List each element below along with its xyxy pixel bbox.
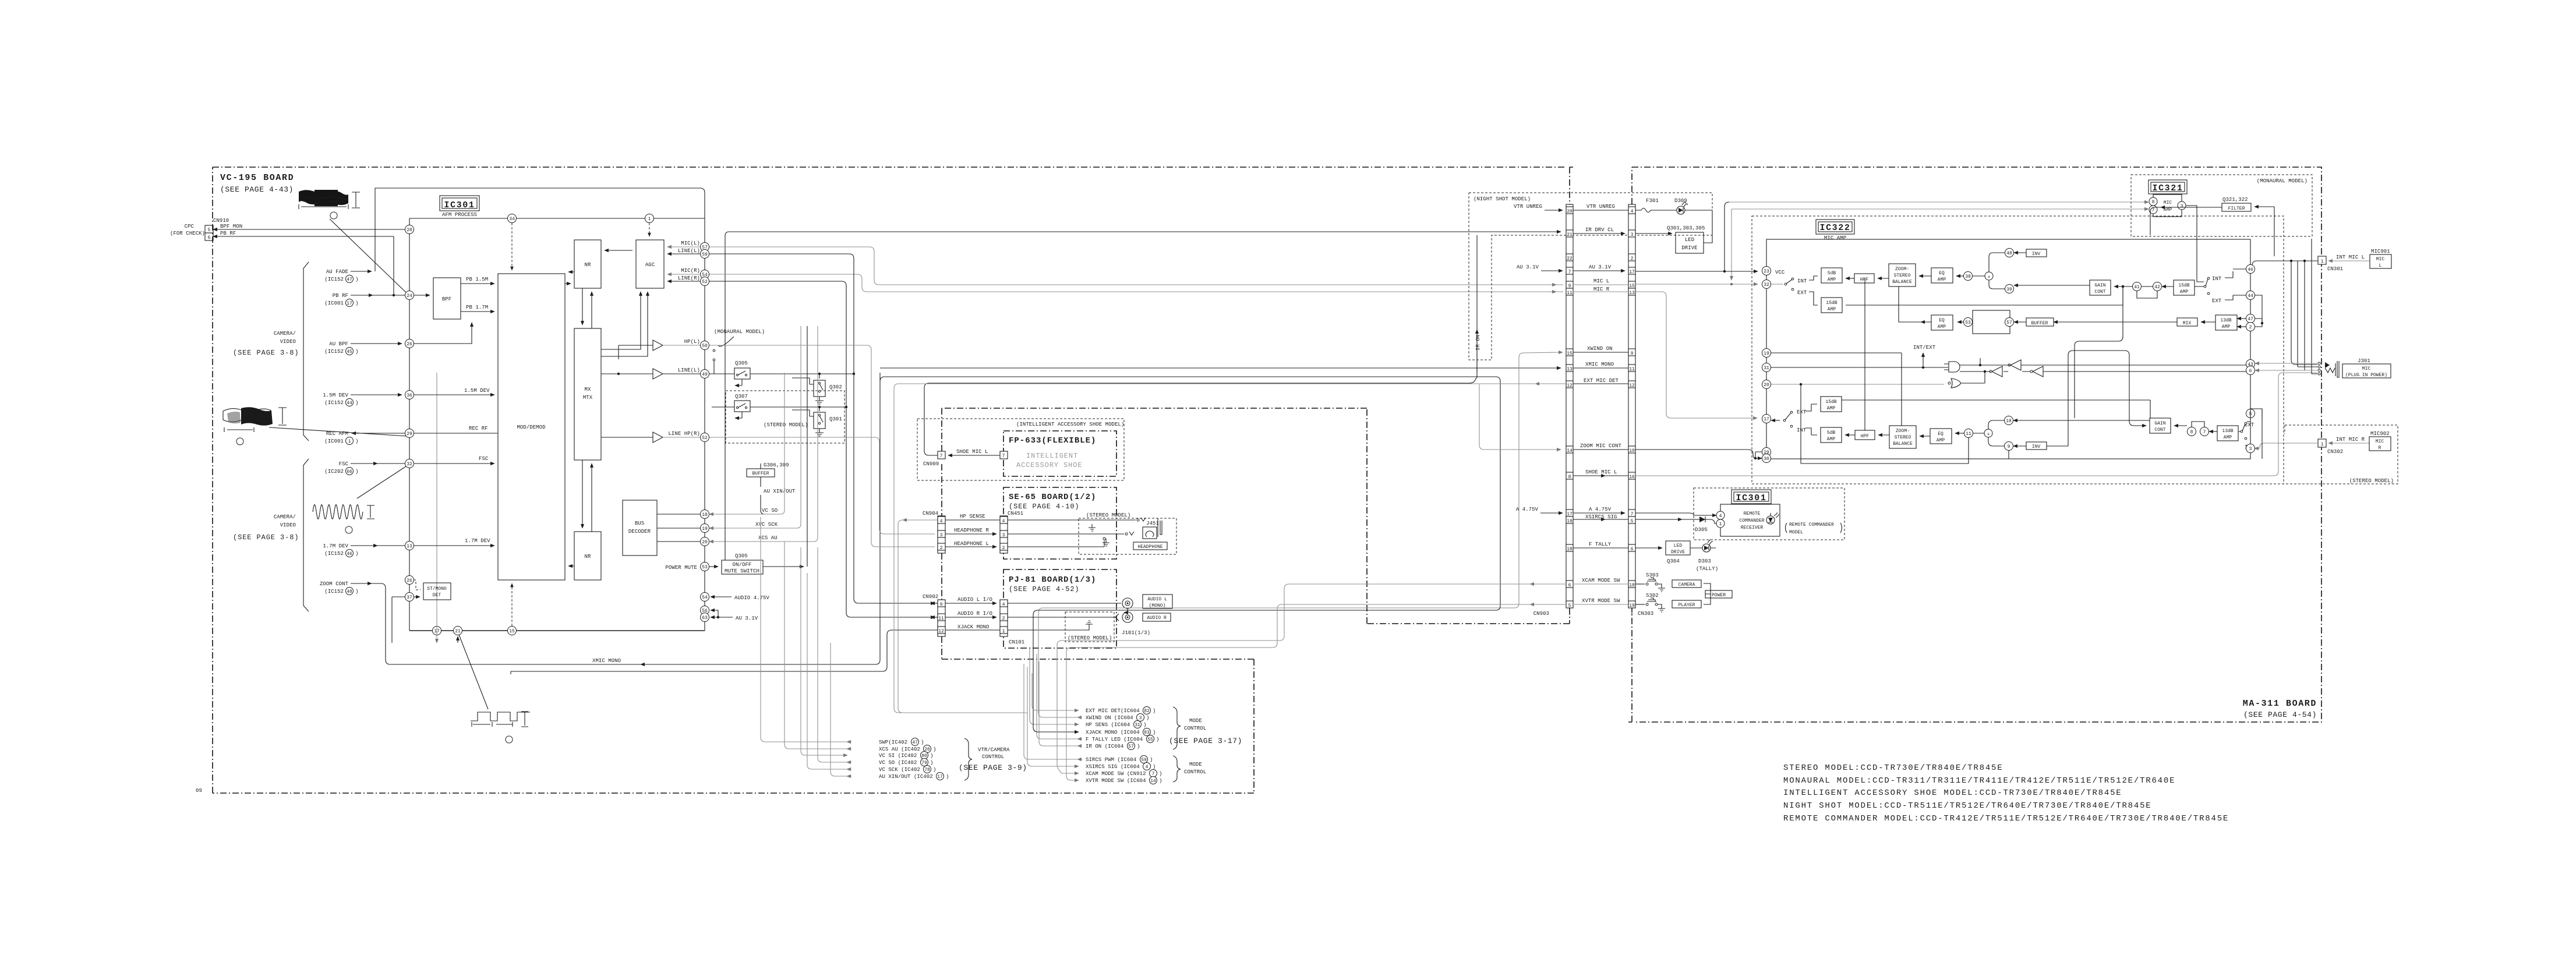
BPF box bbox=[433, 278, 461, 319]
svg-text:CAMERA/: CAMERA/ bbox=[274, 331, 296, 337]
svg-text:LED: LED bbox=[1674, 543, 1683, 549]
FP pin 7 bbox=[1000, 451, 1008, 459]
pin 29 bbox=[405, 429, 414, 438]
HPF top bbox=[1854, 274, 1874, 283]
svg-text:26: 26 bbox=[407, 578, 412, 583]
wire HP(L) down to HEADPHONE L bbox=[709, 345, 935, 547]
svg-text:17: 17 bbox=[1629, 270, 1635, 275]
svg-text:): ) bbox=[355, 469, 358, 475]
svg-text:20: 20 bbox=[702, 540, 708, 545]
svg-text:12: 12 bbox=[1567, 383, 1573, 388]
svg-text:1: 1 bbox=[2321, 442, 2324, 447]
svg-text:CAMERA/: CAMERA/ bbox=[274, 514, 296, 520]
svg-text:INT MIC R: INT MIC R bbox=[2336, 437, 2365, 443]
via 21 bbox=[454, 627, 462, 635]
svg-text:INTELLIGENT ACCESSORY SHOE MOD: INTELLIGENT ACCESSORY SHOE MODEL:CCD-TR7… bbox=[1783, 788, 2122, 798]
15dB AMP right bbox=[2174, 280, 2195, 295]
svg-text:Q321,322: Q321,322 bbox=[2222, 197, 2248, 203]
svg-text:(MONAURAL MODEL): (MONAURAL MODEL) bbox=[2257, 178, 2308, 184]
svg-text:7: 7 bbox=[1002, 454, 1005, 459]
svg-text:ZOOM-: ZOOM- bbox=[1896, 429, 1910, 434]
monaural model dashed box bbox=[2131, 175, 2312, 236]
stereo model dashed box bbox=[726, 391, 844, 443]
svg-text:1: 1 bbox=[1719, 522, 1722, 527]
square pointer circle bbox=[506, 736, 513, 743]
pin 18 VC SO bbox=[701, 510, 709, 519]
svg-text:6: 6 bbox=[1568, 583, 1571, 588]
5dB AMP top bbox=[1821, 268, 1842, 283]
CN101 column bbox=[1000, 600, 1008, 636]
ST/MONO DET box bbox=[423, 583, 451, 600]
svg-text:REMOTE COMMANDER MODEL:CCD-TR4: REMOTE COMMANDER MODEL:CCD-TR412E/TR511E… bbox=[1783, 814, 2229, 823]
svg-text:26: 26 bbox=[407, 342, 412, 347]
svg-text:7: 7 bbox=[2152, 208, 2155, 213]
via 17 bbox=[433, 627, 441, 635]
pin 20 XCS AU bbox=[701, 537, 709, 546]
svg-text:SE-65 BOARD(1/2): SE-65 BOARD(1/2) bbox=[1009, 493, 1096, 502]
svg-text:F301: F301 bbox=[1646, 198, 1659, 204]
svg-text:MODE: MODE bbox=[1189, 718, 1202, 724]
svg-text:32: 32 bbox=[1764, 282, 1769, 288]
svg-text:BUFFER: BUFFER bbox=[752, 471, 769, 476]
wire LINE(L) down to AUDIO L I/O bbox=[709, 254, 935, 603]
node 47 2 bbox=[2246, 314, 2255, 323]
svg-text:AU 3.1V: AU 3.1V bbox=[1589, 264, 1612, 270]
pin 53 POWER MUTE bbox=[701, 562, 709, 571]
svg-text:): ) bbox=[1153, 730, 1156, 735]
svg-text:59: 59 bbox=[1141, 758, 1147, 763]
svg-text:(SEE PAGE 3-8): (SEE PAGE 3-8) bbox=[233, 533, 299, 542]
BUFFER mid bbox=[2026, 318, 2054, 326]
wires MX to AGC bbox=[601, 292, 641, 349]
13dB AMP mid bbox=[2215, 315, 2237, 330]
svg-text:32: 32 bbox=[407, 462, 412, 467]
svg-text:7: 7 bbox=[1152, 772, 1155, 777]
svg-text:(SEE PAGE 3-17): (SEE PAGE 3-17) bbox=[1169, 737, 1242, 745]
svg-text:52: 52 bbox=[702, 436, 708, 441]
svg-text:7: 7 bbox=[2203, 430, 2206, 435]
svg-text:(SEE PAGE 4-43): (SEE PAGE 4-43) bbox=[220, 185, 294, 194]
svg-text:CONTROL: CONTROL bbox=[982, 754, 1004, 760]
svg-text:EXT MIC DET(IC604: EXT MIC DET(IC604 bbox=[1086, 708, 1140, 714]
svg-text:BALANCE: BALANCE bbox=[1892, 280, 1912, 285]
POWER label bbox=[1705, 590, 1732, 598]
pin row MIC L bbox=[1566, 281, 1573, 288]
svg-text:XCS AU: XCS AU bbox=[758, 535, 778, 541]
MA-311 board border bbox=[1628, 167, 2321, 722]
svg-text:PJ-81 BOARD(1/3): PJ-81 BOARD(1/3) bbox=[1009, 575, 1096, 585]
XJACK MONO jack ground bbox=[1008, 621, 1093, 630]
svg-text:6: 6 bbox=[208, 235, 211, 240]
svg-text:(IC152: (IC152 bbox=[324, 400, 344, 406]
svg-text:47: 47 bbox=[912, 740, 918, 745]
svg-text:15: 15 bbox=[509, 629, 515, 634]
LED DRIVE Q304 bbox=[1666, 541, 1690, 555]
lower channel bottom rail bbox=[1801, 384, 1969, 464]
svg-text:BPF MON: BPF MON bbox=[220, 224, 242, 229]
intelligent accessory shoe dotted box bbox=[917, 419, 1124, 480]
svg-text:F TALLY LED (IC604: F TALLY LED (IC604 bbox=[1086, 737, 1143, 742]
svg-text:2: 2 bbox=[940, 546, 943, 551]
svg-text:): ) bbox=[1159, 778, 1162, 784]
night shot model dashed box bbox=[1469, 193, 1712, 360]
headphone jack stereo dashed box bbox=[1079, 518, 1176, 554]
svg-text:36: 36 bbox=[407, 393, 412, 398]
svg-text:(IC001: (IC001 bbox=[324, 438, 344, 444]
pointer line to pin 24 bbox=[330, 219, 407, 293]
pin 26 bbox=[405, 339, 414, 348]
pin row MIC R bbox=[1566, 288, 1573, 295]
svg-text:83: 83 bbox=[1144, 730, 1150, 735]
svg-text:12: 12 bbox=[938, 629, 944, 634]
svg-text:MIC: MIC bbox=[2376, 439, 2384, 444]
svg-text:8: 8 bbox=[1568, 475, 1571, 480]
svg-text:3: 3 bbox=[1002, 533, 1005, 538]
IC301 top bus bbox=[409, 218, 705, 219]
pin 52 LINE(R) bbox=[701, 277, 709, 286]
svg-text:15dB: 15dB bbox=[1825, 399, 1836, 405]
svg-text:MIC AMP: MIC AMP bbox=[1824, 235, 1846, 241]
logic AND gate bbox=[1949, 362, 1960, 372]
wire AU BPF bbox=[351, 343, 402, 344]
svg-text:D303: D303 bbox=[1698, 558, 1711, 564]
PLAYER label bbox=[1672, 600, 1701, 608]
svg-text:): ) bbox=[1150, 757, 1153, 763]
svg-text:9: 9 bbox=[1631, 351, 1634, 356]
svg-text:XVC SCK: XVC SCK bbox=[755, 522, 778, 528]
pin 28 bbox=[405, 225, 414, 234]
svg-text:7: 7 bbox=[1568, 270, 1571, 275]
svg-text:AMP: AMP bbox=[2224, 435, 2232, 440]
svg-text:SHOE MIC L: SHOE MIC L bbox=[956, 449, 988, 455]
svg-text:DRIVE: DRIVE bbox=[1681, 245, 1697, 251]
svg-text:(STEREO MODEL): (STEREO MODEL) bbox=[2349, 478, 2394, 484]
MOD/DEMOD box bbox=[498, 274, 565, 580]
svg-text:5: 5 bbox=[208, 228, 211, 233]
svg-text:VIDEO: VIDEO bbox=[280, 522, 296, 528]
svg-text:AMP: AMP bbox=[2164, 207, 2172, 213]
wire filter to mic amp bbox=[2186, 206, 2204, 282]
svg-text:EXT: EXT bbox=[1797, 290, 1807, 296]
svg-text:STEREO: STEREO bbox=[1895, 435, 1911, 440]
LED in receiver bbox=[1766, 516, 1775, 524]
IC301 remote label bbox=[1732, 490, 1771, 504]
svg-text:AMP: AMP bbox=[1828, 307, 1836, 312]
pin row XCAM MODE SW bbox=[1566, 581, 1573, 588]
pin 19 XVC SCK bbox=[701, 524, 709, 533]
wire MIC L into mic amp pin 8 bbox=[1635, 284, 1758, 285]
HEADPHONE label bbox=[1133, 542, 1167, 550]
svg-text:REMOTE COMMANDER: REMOTE COMMANDER bbox=[1789, 522, 1834, 528]
ground symbol upper bbox=[1089, 524, 1096, 531]
svg-text:INT/EXT: INT/EXT bbox=[1913, 345, 1936, 351]
pin 13 bbox=[405, 542, 414, 550]
svg-text:(NIGHT SHOT MODEL): (NIGHT SHOT MODEL) bbox=[1473, 196, 1531, 202]
svg-text:ZOOM-: ZOOM- bbox=[1895, 267, 1909, 272]
svg-text:A 4.75V: A 4.75V bbox=[1516, 507, 1539, 512]
svg-text:AUDIO L: AUDIO L bbox=[1147, 597, 1167, 602]
svg-text:MIC901: MIC901 bbox=[2371, 249, 2390, 254]
svg-text:EXT MIC DET: EXT MIC DET bbox=[1584, 378, 1619, 384]
svg-text:20: 20 bbox=[1567, 209, 1573, 214]
adder top bbox=[1985, 272, 1993, 280]
svg-text:6: 6 bbox=[2249, 369, 2252, 374]
svg-text:13dB: 13dB bbox=[2222, 429, 2233, 434]
wire HP SENSE channel bbox=[903, 519, 938, 521]
svg-text:37: 37 bbox=[407, 595, 412, 600]
svg-text:NR: NR bbox=[585, 262, 591, 268]
svg-text:SWP(IC402: SWP(IC402 bbox=[879, 740, 907, 745]
svg-text:AU 3.1V: AU 3.1V bbox=[736, 615, 758, 621]
svg-text:XCAM MODE SW: XCAM MODE SW bbox=[1582, 578, 1620, 583]
svg-text:15: 15 bbox=[1567, 351, 1573, 356]
svg-text:MOD/DEMOD: MOD/DEMOD bbox=[517, 424, 545, 430]
svg-text:13: 13 bbox=[1567, 367, 1573, 372]
svg-text:AMP: AMP bbox=[1827, 406, 1836, 411]
pin 23 VCC bbox=[1762, 267, 1771, 275]
svg-text:MTX: MTX bbox=[583, 395, 593, 401]
node 38 bbox=[1964, 272, 1973, 281]
svg-text:): ) bbox=[921, 740, 924, 745]
svg-text:NR: NR bbox=[585, 554, 591, 560]
svg-text:48: 48 bbox=[2006, 251, 2012, 256]
svg-text:AU 3.1V: AU 3.1V bbox=[1517, 264, 1539, 270]
pin row SHOE MIC L bbox=[1566, 472, 1573, 479]
long wire MIC(R) to CN903 MIC R bbox=[709, 274, 1563, 292]
svg-text:VTR UNREG: VTR UNREG bbox=[1586, 204, 1615, 210]
svg-text:REMOTE: REMOTE bbox=[1744, 511, 1761, 516]
MX MTX box bbox=[574, 328, 601, 460]
remote commander model note bbox=[1786, 523, 1842, 533]
pin 37 bbox=[405, 593, 414, 602]
svg-text:IR ON (IC604: IR ON (IC604 bbox=[1086, 744, 1123, 749]
SE-65 board box bbox=[1003, 487, 1116, 559]
pin row EXT MIC DET bbox=[1566, 381, 1573, 388]
svg-text:DECODER: DECODER bbox=[628, 529, 651, 535]
svg-text:8: 8 bbox=[2152, 200, 2155, 205]
EQ AMP lower bbox=[1930, 429, 1952, 444]
long wire MIC(L) to CN903 MIC L bbox=[709, 247, 1563, 285]
noise pointer circle mid bbox=[236, 438, 243, 445]
node 41 42 bbox=[2133, 282, 2142, 291]
svg-text:VCC: VCC bbox=[1775, 270, 1785, 275]
wire A4.75V to receiver bbox=[1635, 513, 1716, 515]
svg-text:VTR UNREG: VTR UNREG bbox=[1514, 204, 1542, 210]
pin row XWIND ON bbox=[1566, 349, 1573, 356]
svg-text:13: 13 bbox=[407, 544, 412, 549]
amp LINE HP(R) bbox=[653, 432, 663, 443]
svg-text:Q305: Q305 bbox=[735, 553, 748, 559]
svg-text:XWIND ON (IC604: XWIND ON (IC604 bbox=[1086, 715, 1133, 721]
svg-text:): ) bbox=[930, 753, 933, 759]
noise waveform picture mid bbox=[223, 407, 287, 432]
svg-text:66: 66 bbox=[347, 469, 352, 475]
svg-text:HP SENS (IC604: HP SENS (IC604 bbox=[1086, 722, 1130, 728]
feedback rails bbox=[2068, 351, 2146, 426]
ZOOM-STEREO BALANCE lower bbox=[1889, 426, 1916, 448]
svg-text:): ) bbox=[355, 300, 358, 306]
svg-text:16: 16 bbox=[1629, 475, 1635, 480]
svg-text:48: 48 bbox=[347, 589, 352, 595]
svg-text:EQ: EQ bbox=[1939, 318, 1945, 323]
node 8 7 lower bbox=[2188, 427, 2196, 436]
svg-text:Q305: Q305 bbox=[735, 360, 748, 366]
wire NR lower to MOD bbox=[568, 565, 574, 567]
svg-text:DET: DET bbox=[433, 593, 441, 598]
svg-text:VC SO (IC402: VC SO (IC402 bbox=[879, 760, 917, 766]
pin 54 MIC(R) bbox=[701, 270, 709, 279]
svg-text:XMIC MONO: XMIC MONO bbox=[1585, 362, 1614, 367]
svg-text:1.7M DEV: 1.7M DEV bbox=[323, 543, 348, 549]
svg-text:XWIND ON: XWIND ON bbox=[1587, 346, 1613, 352]
svg-text:9: 9 bbox=[940, 602, 943, 607]
svg-text:AUDIO R: AUDIO R bbox=[1147, 615, 1167, 621]
square wave picture bbox=[471, 712, 530, 727]
svg-text:(IC152: (IC152 bbox=[324, 349, 344, 355]
svg-text:5: 5 bbox=[1631, 519, 1634, 524]
node 9 / INV lower bbox=[2005, 442, 2013, 451]
svg-text:AMP: AMP bbox=[1938, 324, 1946, 330]
wires MIC(L)/LINE(L) into AGC bbox=[667, 246, 700, 247]
svg-text:BUFFER: BUFFER bbox=[2031, 321, 2048, 326]
pin 59 LINE(L) bbox=[701, 250, 709, 259]
wires MIC(R)/LINE(R) into AGC bbox=[667, 274, 700, 275]
svg-text:30: 30 bbox=[1764, 457, 1769, 462]
pin row F TALLY bbox=[1566, 544, 1573, 551]
svg-text:HPF: HPF bbox=[1861, 434, 1870, 439]
svg-text:LED: LED bbox=[1685, 237, 1694, 243]
svg-text:BALANCE: BALANCE bbox=[1893, 441, 1913, 447]
svg-text:MUTE SWITCH: MUTE SWITCH bbox=[725, 568, 759, 574]
svg-text:38: 38 bbox=[1965, 274, 1971, 280]
svg-text:CPC: CPC bbox=[185, 224, 195, 229]
svg-text:IR DRV CL: IR DRV CL bbox=[1585, 227, 1614, 233]
svg-text:MODEL: MODEL bbox=[1789, 530, 1803, 535]
svg-text:1: 1 bbox=[648, 217, 651, 222]
svg-text:VC SO: VC SO bbox=[762, 508, 778, 514]
svg-text:CN302: CN302 bbox=[2327, 449, 2343, 455]
pin row XMIC MONO bbox=[1566, 365, 1573, 372]
svg-text:DRIVE: DRIVE bbox=[1671, 550, 1685, 555]
svg-text:L: L bbox=[2379, 263, 2382, 268]
svg-text:CAMERA: CAMERA bbox=[1679, 582, 1695, 588]
svg-text:D305: D305 bbox=[1695, 527, 1708, 533]
wire REC AFM out bbox=[352, 433, 405, 434]
svg-text:13dB: 13dB bbox=[2220, 318, 2231, 323]
svg-text:45: 45 bbox=[347, 349, 352, 355]
svg-text:LINE(L): LINE(L) bbox=[678, 367, 700, 373]
svg-text:50: 50 bbox=[702, 344, 708, 349]
svg-text:(FOR CHECK): (FOR CHECK) bbox=[170, 231, 205, 236]
svg-text:EXT: EXT bbox=[1797, 409, 1807, 415]
pin row VTR UNREG bbox=[1566, 207, 1573, 214]
svg-text:): ) bbox=[355, 277, 358, 282]
svg-text:ZOOM MIC CONT: ZOOM MIC CONT bbox=[1580, 443, 1621, 449]
svg-text:18: 18 bbox=[2006, 419, 2012, 424]
svg-text:2: 2 bbox=[1631, 256, 1634, 261]
GAIN CONT top bbox=[2090, 280, 2111, 295]
svg-text:Q304: Q304 bbox=[1667, 558, 1680, 564]
svg-text:13: 13 bbox=[1629, 291, 1635, 296]
svg-text:J101(1/3): J101(1/3) bbox=[1122, 630, 1150, 636]
svg-text:(IC152: (IC152 bbox=[324, 277, 344, 282]
svg-text:80: 80 bbox=[921, 753, 927, 759]
svg-text:5dB: 5dB bbox=[1827, 430, 1836, 436]
svg-text:MODE: MODE bbox=[1189, 762, 1202, 767]
svg-text:INT: INT bbox=[1797, 427, 1807, 433]
svg-text:23: 23 bbox=[1764, 269, 1769, 274]
svg-text:XVTR MODE SW: XVTR MODE SW bbox=[1582, 598, 1620, 604]
svg-text:46: 46 bbox=[347, 551, 352, 557]
svg-text:17: 17 bbox=[1764, 417, 1769, 422]
svg-text:52: 52 bbox=[702, 280, 708, 285]
node 5 3 lower right bbox=[2246, 409, 2255, 418]
IC322 body bbox=[1766, 239, 2250, 459]
svg-text:AU BPF: AU BPF bbox=[329, 341, 348, 347]
svg-text:J301: J301 bbox=[2358, 358, 2370, 364]
FP-633 board box bbox=[1003, 431, 1116, 476]
svg-text:MONAURAL MODEL:CCD-TR311/TR311: MONAURAL MODEL:CCD-TR311/TR311E/TR411E/T… bbox=[1783, 776, 2175, 786]
svg-text:11: 11 bbox=[938, 616, 944, 621]
svg-text:ZOOM CONT: ZOOM CONT bbox=[320, 581, 349, 587]
svg-text:6: 6 bbox=[1631, 547, 1634, 552]
svg-text:): ) bbox=[1137, 744, 1140, 749]
svg-text:(STEREO MODEL): (STEREO MODEL) bbox=[764, 422, 808, 428]
svg-text:AMP: AMP bbox=[1828, 277, 1836, 282]
svg-text:IR ON: IR ON bbox=[1475, 335, 1481, 351]
wires BUS DECODER to pins bbox=[657, 514, 701, 515]
svg-text:54: 54 bbox=[702, 595, 708, 600]
wire ZOOM CONT down to mono bus bbox=[351, 583, 372, 584]
pin row 22/2 bbox=[1566, 254, 1573, 261]
svg-text:CN101: CN101 bbox=[1009, 639, 1024, 645]
svg-text:1: 1 bbox=[348, 439, 351, 444]
svg-text:LINE(R): LINE(R) bbox=[678, 275, 700, 281]
BUS DECODER box bbox=[623, 500, 657, 556]
svg-text:AU XIN/OUT: AU XIN/OUT bbox=[764, 489, 796, 494]
svg-text:(TALLY): (TALLY) bbox=[1696, 566, 1718, 572]
svg-text:CONTROL: CONTROL bbox=[1184, 769, 1206, 775]
svg-text:AUDIO R I/O: AUDIO R I/O bbox=[957, 611, 992, 617]
svg-text:HPF: HPF bbox=[1860, 277, 1869, 282]
svg-text:17: 17 bbox=[347, 301, 352, 306]
svg-text:GAIN: GAIN bbox=[2094, 283, 2105, 288]
svg-text:53: 53 bbox=[1965, 320, 1971, 326]
pin row XVTR MODE SW bbox=[1566, 601, 1573, 608]
svg-text:18: 18 bbox=[1567, 547, 1573, 552]
wire LINE HP(R) down to HEADPHONE R bbox=[709, 437, 935, 534]
svg-text:VIDEO: VIDEO bbox=[280, 339, 296, 345]
svg-text:ACCESSORY SHOE: ACCESSORY SHOE bbox=[1016, 461, 1082, 469]
svg-text:CONTROL: CONTROL bbox=[1184, 726, 1206, 731]
wire CN302 into board bbox=[2255, 443, 2318, 448]
svg-text:HP SENSE: HP SENSE bbox=[960, 514, 985, 519]
wire pin24 to BPF bbox=[414, 295, 430, 296]
svg-text:INT: INT bbox=[1797, 278, 1807, 284]
svg-text:IC322: IC322 bbox=[1819, 223, 1850, 233]
svg-text:FILTER: FILTER bbox=[2228, 206, 2245, 211]
wire SHOE MIC L channel bbox=[924, 235, 1477, 455]
CN903 column bbox=[1566, 204, 1573, 608]
svg-text:9: 9 bbox=[2008, 444, 2010, 450]
svg-text:XJACK MONO: XJACK MONO bbox=[957, 624, 990, 630]
pin row ZOOM MIC CONT bbox=[1566, 446, 1573, 453]
svg-text:AMP: AMP bbox=[1937, 438, 1945, 443]
IC322 outer dashed box bbox=[1752, 216, 2284, 484]
svg-text:49: 49 bbox=[702, 372, 708, 377]
CAMERA label bbox=[1672, 580, 1701, 588]
svg-text:(IC202: (IC202 bbox=[324, 469, 344, 475]
